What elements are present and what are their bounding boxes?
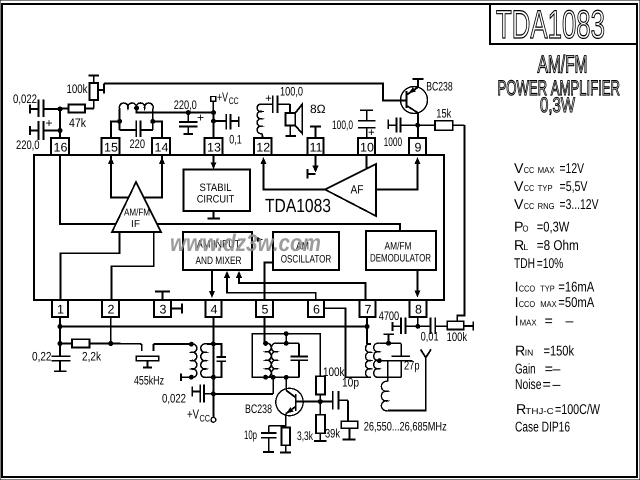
svg-text:=0,3W: =0,3W — [537, 220, 570, 236]
wire pin6 to mixer — [224, 271, 230, 278]
pin 9 — [409, 138, 426, 155]
svg-text:2: 2 — [108, 303, 115, 317]
node coil tap — [135, 106, 139, 110]
terminal pin11 NC — [315, 126, 317, 138]
svg-text:MAX: MAX — [520, 318, 537, 328]
capacitor 4700 — [391, 322, 393, 331]
svg-text:AM/FM: AM/FM — [124, 207, 150, 218]
capacitor 220,0 input — [29, 126, 31, 135]
svg-text:DEMODULATOR: DEMODULATOR — [370, 253, 431, 265]
pin 14 — [152, 138, 170, 155]
svg-text:CC: CC — [524, 183, 535, 193]
svg-text:7: 7 — [365, 303, 372, 317]
capacitor 27p — [400, 343, 402, 356]
svg-text:Noise: Noise — [515, 377, 542, 393]
svg-text:8Ω: 8Ω — [310, 102, 326, 116]
subtitle 0,3W — [540, 94, 575, 117]
svg-text:0,22: 0,22 — [32, 350, 52, 364]
svg-text:220: 220 — [130, 137, 146, 151]
pin 2 — [102, 300, 119, 317]
svg-text:=: = — [545, 314, 553, 330]
svg-text:BC238: BC238 — [426, 80, 453, 94]
svg-text:47k: 47k — [69, 116, 87, 130]
svg-text:AF: AF — [351, 183, 364, 197]
capacitor 0,022 input — [29, 105, 31, 114]
wire ground rail — [59, 317, 61, 327]
svg-text:13: 13 — [207, 141, 221, 155]
capacitor 0,022 agc — [191, 386, 193, 396]
wire pin13 to stabil — [213, 155, 215, 164]
svg-text:L: L — [523, 242, 528, 252]
terminal T1 primary return — [181, 376, 191, 378]
svg-text:4: 4 — [211, 303, 218, 317]
svg-text:CC: CC — [524, 201, 535, 211]
wire pin11 terminal — [315, 155, 317, 167]
svg-text:IN: IN — [525, 348, 534, 358]
transformer T3 winding C — [381, 381, 387, 410]
node input junction — [58, 107, 62, 111]
svg-text:=10%: =10% — [537, 256, 564, 272]
subtitle POWER AMPLIFIER — [498, 76, 621, 100]
svg-text:CC: CC — [229, 96, 239, 107]
inductor speaker choke — [257, 104, 262, 134]
wire pin12 to AF apex — [261, 157, 267, 164]
AM/FM demodulator box — [366, 231, 436, 270]
svg-text:TDA1083: TDA1083 — [265, 196, 331, 217]
svg-text:CIRCUIT: CIRCUIT — [197, 194, 235, 206]
pin3 external NC stub — [171, 308, 182, 310]
svg-text:TDA1083: TDA1083 — [496, 2, 605, 46]
transformer T2 primary — [266, 343, 272, 377]
svg-text:6: 6 — [313, 303, 320, 317]
svg-text:27p: 27p — [404, 359, 420, 373]
svg-text:0,3W: 0,3W — [540, 94, 575, 117]
svg-text:STABIL: STABIL — [200, 182, 232, 194]
svg-text:5: 5 — [262, 303, 269, 317]
oscillator arrow mark — [257, 237, 263, 242]
svg-text:+: + — [45, 116, 52, 130]
resistor 15k — [418, 124, 435, 126]
wire T2 bottom rail — [252, 376, 299, 378]
wire IF base right to pin2 — [112, 232, 154, 300]
wire coil right to pin14 — [152, 109, 154, 131]
potentiometer 100k agc — [447, 321, 463, 329]
wire T2 return to 100k — [252, 334, 320, 378]
wire pin2 down — [110, 317, 112, 344]
wire pin8 down — [417, 317, 419, 326]
svg-text:Gain: Gain — [515, 361, 536, 377]
svg-text:100,0: 100,0 — [280, 84, 303, 98]
svg-text:CCO: CCO — [519, 299, 536, 309]
svg-text:AM/FM: AM/FM — [538, 52, 588, 79]
svg-text:11: 11 — [310, 141, 323, 155]
title box — [490, 4, 637, 44]
wire AF out to pin9 — [376, 164, 418, 190]
wire pin7 to mixer — [236, 271, 242, 278]
title text TDA1083 — [496, 2, 605, 46]
svg-text:–: – — [553, 377, 561, 393]
capacitor 220 tank — [120, 129, 137, 131]
wire pin5 down — [264, 317, 266, 343]
crystal 26MHz — [347, 400, 349, 421]
wire coil left to pin15 — [119, 109, 121, 131]
op-amp AM/FM IF triangle — [112, 182, 161, 232]
svg-text:16: 16 — [54, 141, 68, 155]
svg-text:0,01: 0,01 — [421, 330, 439, 344]
svg-text:MAX: MAX — [540, 299, 557, 309]
svg-text:=150k: =150k — [544, 344, 575, 360]
svg-text:4700: 4700 — [379, 309, 400, 323]
pin 13 — [205, 138, 223, 155]
svg-text:+: + — [265, 93, 272, 105]
wire T3 bottom rail — [376, 376, 401, 378]
svg-text:–: – — [566, 314, 574, 330]
svg-text:+V: +V — [217, 90, 228, 105]
speaker LS — [289, 104, 291, 113]
terminal T3 core adjust — [388, 334, 390, 343]
svg-text:CCO: CCO — [519, 283, 536, 293]
svg-text:1: 1 — [57, 303, 64, 317]
svg-text:V: V — [514, 197, 524, 213]
svg-text:BC238: BC238 — [245, 402, 272, 416]
svg-text:TYP: TYP — [540, 283, 555, 293]
svg-text:100,0: 100,0 — [332, 118, 353, 132]
wire Q2 emitter net — [269, 425, 286, 427]
svg-text:CC: CC — [524, 165, 535, 175]
pin 8 — [410, 300, 427, 317]
wire oscillator to pin5 — [265, 262, 273, 300]
wire pin7 down — [366, 317, 368, 344]
IC body TDA1083 — [34, 155, 444, 300]
pin 10 — [358, 138, 375, 155]
svg-text:220,0: 220,0 — [16, 138, 40, 152]
svg-text:THJ-C: THJ-C — [525, 406, 554, 416]
transformer T3 winding A — [365, 344, 371, 378]
potentiometer 100k volume — [89, 75, 100, 77]
svg-text:=8 Ohm: =8 Ohm — [537, 238, 579, 254]
svg-text:AM/FM: AM/FM — [385, 241, 412, 253]
svg-text:0,1: 0,1 — [229, 133, 242, 147]
subtitle AM/FM — [538, 52, 588, 79]
svg-text:MAX: MAX — [538, 165, 555, 175]
svg-text:IF: IF — [131, 219, 140, 230]
wire pin6 stub — [324, 308, 371, 377]
capacitor 10p coupling — [320, 401, 332, 403]
svg-text:3,3k: 3,3k — [297, 429, 314, 443]
node Vcc junction — [211, 392, 215, 396]
terminal +Vcc top — [211, 97, 216, 102]
pin 1 — [52, 300, 68, 317]
capacitor 100,0 pin10 — [360, 109, 373, 111]
AM oscillator box — [273, 232, 339, 270]
svg-text:CC: CC — [200, 414, 211, 425]
svg-text:455kHz: 455kHz — [134, 374, 164, 388]
svg-text:39k: 39k — [325, 427, 341, 441]
pin 3 — [154, 300, 171, 317]
svg-text:8: 8 — [415, 303, 422, 317]
svg-text:15k: 15k — [436, 106, 452, 120]
pin 12 — [254, 138, 272, 155]
capacitor 1000 — [387, 120, 389, 129]
capacitor T2 tank — [298, 343, 300, 356]
node pin13 net — [212, 111, 216, 115]
svg-text:www.dz3w.com: www.dz3w.com — [170, 230, 321, 257]
pin3 internal terminal — [162, 292, 164, 301]
transformer T1 primary — [191, 344, 197, 378]
svg-text:0,022: 0,022 — [13, 92, 37, 106]
svg-text:14: 14 — [155, 141, 169, 155]
wire pin15 to IF — [110, 138, 112, 164]
svg-text:O: O — [523, 224, 529, 234]
resistor 47k — [60, 108, 69, 110]
wire 15k to agc pot — [457, 125, 464, 321]
stabil circuit box — [184, 170, 251, 212]
stabil ground — [213, 211, 215, 218]
svg-text:15: 15 — [104, 141, 118, 155]
wire Q1 collector to pin9 — [417, 113, 419, 138]
wire mixer to pin4 — [211, 270, 213, 292]
op-amp AF triangle — [325, 164, 376, 216]
wire Vcc to T2 — [213, 393, 273, 395]
wire T3 B top — [379, 342, 401, 344]
pin 4 — [206, 300, 222, 317]
wire T2 secondary top — [277, 342, 299, 344]
internal rail from pin16 to demodulator — [60, 155, 400, 232]
svg-text:=: = — [543, 377, 551, 393]
capacitor 10p emitter — [268, 426, 270, 433]
resistor 2,2k — [60, 343, 72, 345]
svg-text:12: 12 — [256, 141, 270, 155]
pin 7 — [360, 300, 376, 317]
svg-text:100k: 100k — [447, 330, 468, 344]
svg-text:Case DIP16: Case DIP16 — [515, 420, 570, 436]
svg-text:R: R — [515, 344, 525, 360]
wire pin4 down — [212, 317, 214, 394]
inductor IF coil pins15-14 — [119, 103, 153, 109]
capacitor T1 tank — [213, 344, 221, 357]
svg-text:+: + — [197, 111, 204, 125]
AM input and mixer box — [183, 232, 252, 270]
transformer T1 secondary — [201, 344, 207, 378]
transistor Q2 BC238 — [276, 388, 303, 415]
svg-text:=12V: =12V — [560, 161, 585, 177]
transistor Q1 BC238 — [401, 87, 428, 114]
svg-text:100k: 100k — [67, 82, 89, 96]
node Q2 base junction — [318, 400, 322, 404]
svg-text:3: 3 — [160, 303, 167, 317]
svg-text:10: 10 — [360, 141, 374, 155]
svg-text:1000: 1000 — [384, 135, 403, 149]
svg-text:220,0: 220,0 — [174, 98, 197, 112]
pin 11 — [308, 138, 324, 155]
svg-text:2,2k: 2,2k — [82, 350, 102, 364]
terminal Q1 emitter top — [417, 79, 419, 87]
svg-text:RNG: RNG — [538, 201, 555, 211]
svg-text:+V: +V — [187, 407, 199, 422]
pin 16 — [51, 138, 69, 155]
svg-text:10p: 10p — [244, 428, 257, 442]
capacitor 220,0 decoupling — [186, 111, 190, 115]
svg-text:=16mA: =16mA — [558, 279, 594, 295]
svg-text:I: I — [515, 314, 519, 330]
transformer T2 secondary — [271, 343, 277, 377]
transformer T3 winding B — [374, 343, 380, 377]
capacitor 0,01 — [418, 325, 430, 327]
svg-text:TYP: TYP — [538, 183, 553, 193]
svg-text:=5,5V: =5,5V — [560, 179, 588, 195]
svg-text:=100C/W: =100C/W — [555, 402, 600, 418]
wire pin10 to AF — [366, 155, 368, 169]
svg-text:–: – — [553, 361, 561, 377]
capacitor 0,22 — [59, 344, 61, 356]
svg-text:V: V — [514, 161, 524, 177]
svg-text:V: V — [514, 179, 524, 195]
resistor 3,3k — [282, 428, 291, 446]
svg-text:=3...12V: =3...12V — [560, 197, 599, 213]
pin 15 — [102, 138, 120, 155]
capacitor 0,1 — [214, 120, 227, 122]
svg-text:+: + — [368, 127, 375, 139]
pin 5 — [256, 300, 273, 317]
svg-text:26,550...26,685MHz: 26,550...26,685MHz — [364, 420, 447, 434]
wire pot to BC238 base — [103, 84, 105, 91]
pin 6 — [308, 300, 324, 317]
wire demodulator to pin8 — [417, 270, 419, 291]
svg-text:0,022: 0,022 — [162, 392, 186, 406]
resistor 100k bias — [316, 376, 325, 394]
wire pin14 to IF — [161, 138, 163, 164]
wire IF base left to pin1 — [60, 232, 119, 300]
capacitor 100,0 speaker — [267, 103, 273, 105]
svg-text:=50mA: =50mA — [558, 295, 594, 311]
svg-text:9: 9 — [415, 141, 422, 155]
resonator 455kHz — [141, 344, 143, 351]
svg-text:TDH: TDH — [514, 256, 535, 272]
antenna — [388, 358, 426, 411]
resistor 39k — [316, 415, 325, 434]
